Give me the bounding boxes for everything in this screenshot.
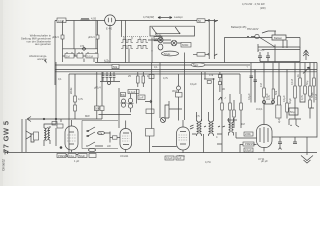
svg-text:0,1μF: 0,1μF	[247, 93, 251, 100]
svg-text:1nF: 1nF	[139, 96, 144, 100]
svg-text:PRESSL: PRESSL	[58, 154, 69, 158]
svg-text:0,1μF: 0,1μF	[190, 82, 197, 86]
svg-text:Graetz: Graetz	[1, 159, 6, 171]
svg-text:μF1/4: μF1/4	[88, 35, 95, 39]
svg-text:50μ: 50μ	[290, 110, 295, 114]
svg-text:μF1/4: μF1/4	[94, 86, 101, 90]
svg-text:50μF: 50μF	[310, 92, 314, 98]
svg-text:50μF: 50μF	[79, 154, 85, 158]
svg-text:0,1μF: 0,1μF	[129, 90, 136, 94]
svg-text:1 μF: 1 μF	[74, 159, 80, 163]
svg-text:50k: 50k	[274, 90, 278, 95]
svg-text:Ballast: Ballast	[274, 36, 282, 40]
svg-text:50k: 50k	[121, 93, 126, 97]
svg-text:77 GW 5: 77 GW 5	[2, 121, 11, 153]
svg-text:3×0,1: 3×0,1	[256, 107, 263, 111]
svg-text:0,1M: 0,1M	[314, 94, 318, 100]
svg-text:UCH11: UCH11	[120, 154, 129, 158]
svg-text:Netz: Netz	[193, 63, 199, 67]
svg-text:0,1: 0,1	[58, 77, 62, 81]
svg-text:50μF: 50μF	[288, 98, 292, 104]
svg-text:85V•110V: 85V•110V	[247, 27, 259, 31]
svg-text:LW: LW	[107, 144, 111, 148]
svg-text:aus gesehen: aus gesehen	[35, 42, 51, 46]
svg-text:0,1: 0,1	[154, 65, 158, 69]
svg-text:0,1M: 0,1M	[58, 19, 64, 23]
svg-text:2×0,1: 2×0,1	[258, 48, 265, 52]
svg-text:50μ: 50μ	[305, 80, 309, 85]
svg-text:47k: 47k	[209, 73, 214, 77]
svg-text:E 4 0: E 4 0	[106, 27, 113, 31]
svg-text:2,5: 2,5	[196, 114, 200, 118]
svg-text:0,1μF: 0,1μF	[265, 93, 269, 100]
svg-text:600Ω: 600Ω	[182, 43, 188, 47]
svg-text:1M: 1M	[259, 83, 263, 87]
svg-text:1M: 1M	[241, 122, 245, 126]
svg-text:0,1μ: 0,1μ	[69, 154, 75, 158]
svg-text:4,7k: 4,7k	[300, 94, 304, 100]
svg-text:0,1μF: 0,1μF	[245, 148, 252, 152]
svg-text:4,7Ω(2W): 4,7Ω(2W)	[143, 15, 154, 19]
svg-text:4,7Ω: 4,7Ω	[205, 160, 211, 164]
svg-text:47k: 47k	[98, 131, 103, 135]
svg-text:1M: 1M	[66, 54, 70, 58]
svg-text:μF1/4: μF1/4	[52, 35, 59, 39]
svg-text:50k: 50k	[95, 107, 100, 111]
svg-text:MW: MW	[85, 114, 90, 118]
svg-text:0,1μF: 0,1μF	[166, 156, 173, 160]
svg-text:4,7k: 4,7k	[78, 97, 84, 101]
svg-text:Welle: Welle	[69, 87, 73, 94]
svg-text:50μH: 50μH	[164, 52, 170, 56]
svg-text:PRESSL: PRESSL	[245, 142, 256, 146]
svg-text:Lautspr.: Lautspr.	[174, 15, 184, 19]
svg-text:4,7k: 4,7k	[163, 76, 169, 80]
svg-text:0,1M: 0,1M	[290, 79, 294, 85]
svg-text:2μF: 2μF	[277, 118, 281, 123]
svg-text:anzeige: anzeige	[37, 57, 47, 61]
svg-text:0,1M: 0,1M	[87, 54, 93, 58]
svg-text:4,7Ω 2W · 4,7Ω 2W: 4,7Ω 2W · 4,7Ω 2W	[242, 2, 265, 6]
svg-text:4,05: 4,05	[91, 17, 97, 21]
svg-text:50k: 50k	[113, 65, 118, 69]
svg-text:220k: 220k	[245, 132, 251, 136]
svg-text:Ballast(2×45): Ballast(2×45)	[231, 25, 246, 29]
svg-text:1μF: 1μF	[177, 156, 182, 160]
svg-text:(2W): (2W)	[260, 6, 266, 10]
svg-text:μF μF: μF μF	[261, 159, 268, 163]
svg-text:50μH: 50μH	[155, 33, 161, 37]
svg-text:0,1μF: 0,1μF	[282, 95, 286, 102]
